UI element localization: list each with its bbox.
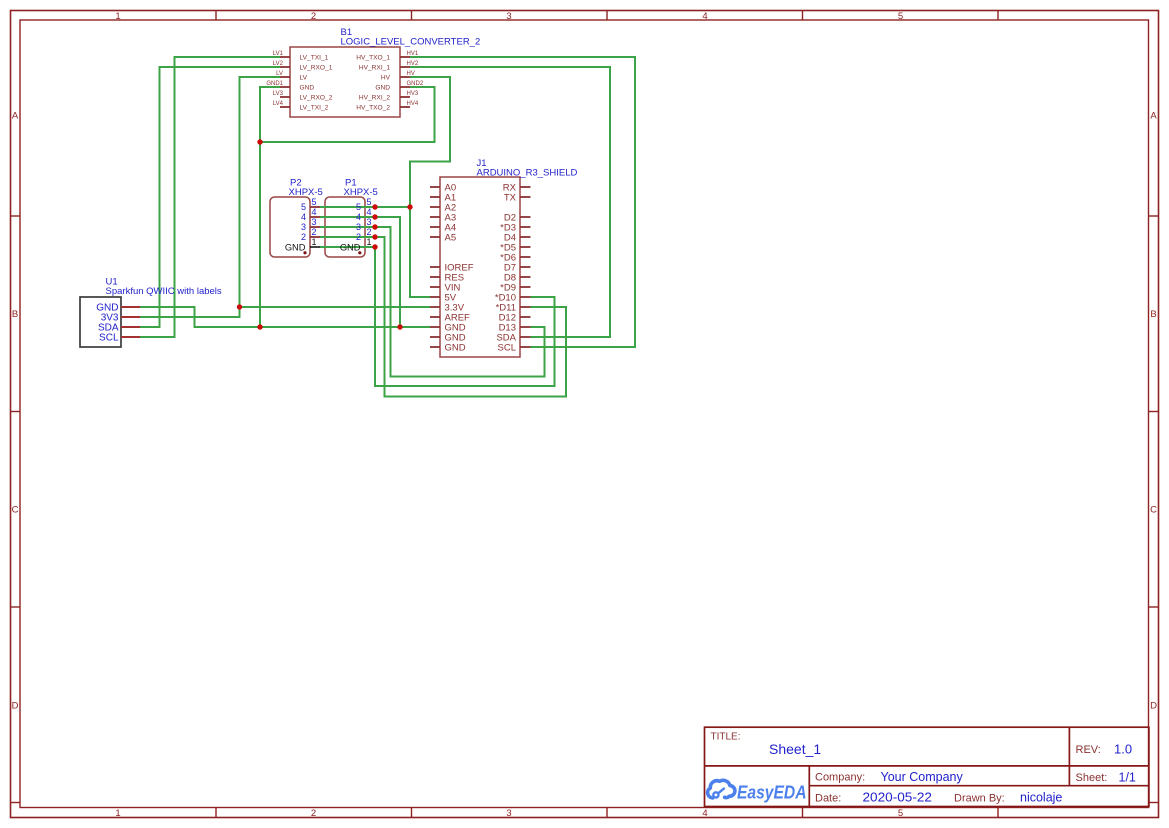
wire net SCL: B1 LV1 to U1 SCL	[140, 57, 280, 337]
svg-text:TX: TX	[504, 192, 517, 203]
wire P1 pin3 to J1 D13	[320, 227, 545, 377]
svg-text:GND1: GND1	[266, 81, 283, 87]
svg-text:1.0: 1.0	[1114, 742, 1132, 757]
svg-text:5: 5	[312, 197, 317, 207]
svg-text:HV3: HV3	[407, 91, 419, 97]
junction node at 400,327	[397, 324, 402, 329]
title block Date cell	[815, 791, 932, 805]
svg-text:2: 2	[367, 227, 372, 237]
svg-text:4: 4	[702, 808, 707, 819]
svg-text:HV: HV	[381, 74, 391, 81]
svg-text:GND: GND	[445, 342, 466, 353]
P2 pin number labels	[285, 197, 317, 252]
junction node at 410,207	[407, 204, 412, 209]
svg-text:HV_RXI_1: HV_RXI_1	[359, 64, 390, 71]
svg-text:GND: GND	[375, 84, 390, 91]
svg-text:2: 2	[311, 808, 316, 819]
svg-text:3: 3	[367, 217, 372, 227]
svg-text:TITLE:: TITLE:	[711, 732, 741, 743]
svg-text:LV: LV	[276, 71, 283, 77]
wire net 3V3 branch to J1 3.3V	[240, 306, 431, 308]
EasyEDA logo text	[737, 782, 807, 803]
U1 pin name labels	[96, 303, 119, 344]
title block Drawn By cell	[954, 791, 1062, 805]
svg-text:A: A	[12, 110, 19, 121]
svg-text:Drawn By:: Drawn By:	[954, 792, 1005, 804]
svg-text:2: 2	[311, 11, 316, 22]
svg-text:LV_RXO_2: LV_RXO_2	[300, 94, 333, 101]
P2 designator label	[289, 177, 323, 198]
svg-text:Sparkfun QWIIC with labels: Sparkfun QWIIC with labels	[106, 286, 222, 297]
svg-text:D: D	[1150, 700, 1157, 711]
svg-text:3: 3	[301, 222, 306, 232]
J1 pin name labels	[445, 182, 517, 353]
svg-text:D: D	[12, 700, 19, 711]
svg-text:HV_TXO_2: HV_TXO_2	[356, 104, 390, 111]
title block TITLE cell	[711, 732, 822, 757]
B1 pin name labels	[266, 51, 424, 112]
svg-text:Company:: Company:	[815, 772, 865, 784]
wire P1 pin2 to J1 D11	[320, 237, 566, 397]
svg-text:1: 1	[367, 237, 372, 247]
sheet column labels top	[115, 11, 903, 22]
svg-text:GND: GND	[300, 84, 315, 91]
svg-text:LV_TXI_2: LV_TXI_2	[300, 104, 329, 111]
wire net SDA: B1 LV2 to U1 SDA	[140, 67, 280, 327]
svg-text:5: 5	[367, 197, 372, 207]
svg-text:1: 1	[115, 11, 120, 22]
svg-text:HV: HV	[407, 71, 415, 77]
J1 designator label	[477, 158, 578, 179]
title block frame	[705, 727, 1149, 806]
svg-text:LV3: LV3	[273, 91, 284, 97]
svg-text:3: 3	[312, 217, 317, 227]
U1 designator label	[106, 276, 222, 296]
svg-text:5: 5	[356, 202, 361, 212]
junction node at 375,227	[372, 224, 377, 229]
IC J1 body and pins	[430, 177, 531, 357]
svg-text:2: 2	[301, 232, 306, 242]
wire B1 HV2 to J1 SDA	[410, 67, 610, 337]
junction node at 375,207	[372, 204, 377, 209]
junction node at 375,217	[372, 214, 377, 219]
wire net 3V3: B1 LV to U1 3V3	[140, 77, 280, 317]
IC B1 body and pins	[280, 47, 410, 117]
svg-text:Sheet_1: Sheet_1	[769, 741, 821, 757]
svg-text:LV2: LV2	[273, 61, 284, 67]
svg-text:B: B	[1150, 309, 1156, 320]
svg-text:GND2: GND2	[407, 81, 424, 87]
svg-text:1: 1	[312, 237, 317, 247]
wire net GND rail: U1 GND to J1 GND	[140, 307, 430, 327]
svg-text:C: C	[12, 504, 19, 515]
svg-text:LV: LV	[300, 74, 308, 81]
wire net GND: B1 GND1 down to GND rail	[260, 87, 280, 327]
wire B1 HV1 to J1 SCL	[410, 57, 635, 347]
svg-text:GND: GND	[340, 242, 361, 252]
svg-text:A: A	[1150, 110, 1157, 121]
junction node at 239.5,307	[237, 304, 242, 309]
svg-text:XHPX-5: XHPX-5	[344, 187, 378, 198]
wire net 5V: B1 HV down to J1 5V	[410, 77, 450, 297]
svg-text:4: 4	[356, 212, 361, 222]
svg-text:SCL: SCL	[498, 342, 516, 353]
wire net GND loop to B1 GND2	[260, 87, 435, 142]
svg-text:LOGIC_LEVEL_CONVERTER_2: LOGIC_LEVEL_CONVERTER_2	[341, 37, 481, 48]
svg-text:HV_RXI_2: HV_RXI_2	[359, 94, 390, 101]
connector P2 body and pins	[270, 197, 320, 257]
EasyEDA logo cloud icon	[708, 780, 735, 798]
junction node at 375,237	[372, 234, 377, 239]
svg-text:4: 4	[367, 207, 372, 217]
svg-text:nicolaje: nicolaje	[1020, 791, 1062, 805]
title block REV cell	[1076, 742, 1133, 757]
svg-text:2020-05-22: 2020-05-22	[863, 791, 933, 805]
svg-text:ARDUINO_R3_SHIELD: ARDUINO_R3_SHIELD	[477, 168, 578, 179]
svg-text:LV_TXI_1: LV_TXI_1	[300, 54, 329, 61]
wire net 5V row: P2 pin5 to P1 pin5	[320, 206, 410, 208]
title block Sheet cell	[1076, 770, 1136, 784]
svg-text:C: C	[1150, 504, 1157, 515]
svg-text:HV1: HV1	[407, 51, 419, 57]
svg-text:5: 5	[898, 808, 903, 819]
svg-text:1: 1	[115, 808, 120, 819]
junction node at 260,142	[257, 139, 262, 144]
svg-text:2: 2	[312, 227, 317, 237]
svg-text:3: 3	[506, 11, 511, 22]
svg-text:EasyEDA: EasyEDA	[737, 782, 807, 803]
svg-text:2: 2	[356, 232, 361, 242]
IC U1 body and pins	[80, 297, 140, 347]
svg-text:4: 4	[312, 207, 317, 217]
B1 designator label	[341, 27, 481, 48]
junction node at 260,327	[257, 324, 262, 329]
svg-text:XHPX-5: XHPX-5	[289, 187, 323, 198]
svg-text:4: 4	[702, 11, 707, 22]
svg-text:REV:: REV:	[1076, 744, 1101, 756]
svg-text:1/1: 1/1	[1119, 770, 1136, 784]
svg-text:HV_TXO_1: HV_TXO_1	[356, 54, 390, 61]
P1 pin number labels	[340, 197, 372, 252]
svg-text:HV4: HV4	[407, 101, 419, 107]
svg-text:B: B	[12, 309, 18, 320]
svg-text:HV2: HV2	[407, 61, 419, 67]
svg-text:Date:: Date:	[815, 792, 841, 804]
sheet column labels bottom	[115, 808, 903, 819]
sheet row labels left	[12, 110, 19, 711]
svg-text:A5: A5	[445, 232, 457, 243]
svg-text:Sheet:: Sheet:	[1076, 772, 1108, 784]
svg-text:Your Company: Your Company	[881, 770, 964, 784]
title block Company cell	[815, 770, 963, 784]
svg-text:3: 3	[356, 222, 361, 232]
svg-text:SCL: SCL	[99, 333, 119, 344]
svg-text:5: 5	[898, 11, 903, 22]
svg-text:GND: GND	[285, 242, 306, 252]
wire net GND riser from P1 pin4	[320, 217, 400, 327]
P1 designator label	[344, 177, 378, 198]
svg-text:4: 4	[301, 212, 306, 222]
junction node at 375,247	[372, 244, 377, 249]
connector P1 body and pins	[325, 197, 375, 257]
wire P1 pin1 to J1 D10	[320, 247, 555, 386]
svg-text:LV1: LV1	[273, 51, 284, 57]
svg-text:5: 5	[301, 202, 306, 212]
sheet row labels right	[1150, 110, 1157, 711]
svg-text:LV4: LV4	[273, 101, 284, 107]
svg-text:LV_RXO_1: LV_RXO_1	[300, 64, 333, 71]
svg-text:3: 3	[506, 808, 511, 819]
